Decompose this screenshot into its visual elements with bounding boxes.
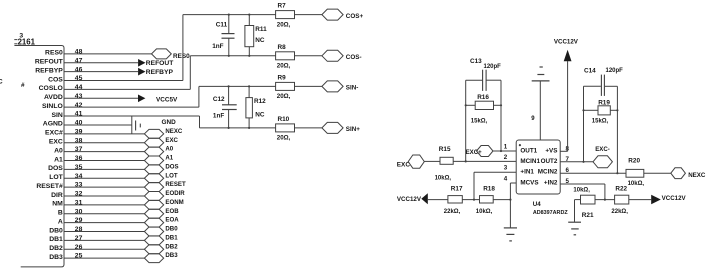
svg-text:COS-: COS- <box>346 54 362 61</box>
svg-text:40: 40 <box>75 120 83 127</box>
svg-text:31: 31 <box>75 199 83 206</box>
svg-text:NC: NC <box>255 111 265 118</box>
svg-text:RESET: RESET <box>165 181 186 188</box>
svg-text:NM: NM <box>52 201 63 208</box>
svg-text:REFBYP: REFBYP <box>146 69 174 76</box>
svg-text:C12: C12 <box>213 96 225 103</box>
svg-text:R22: R22 <box>615 186 627 193</box>
svg-text:35: 35 <box>75 164 83 171</box>
svg-text:28: 28 <box>75 226 83 233</box>
svg-text:VCC5V: VCC5V <box>156 97 178 104</box>
svg-text:10kΩ,: 10kΩ, <box>476 209 493 215</box>
svg-text:R16: R16 <box>477 94 489 101</box>
svg-text:C14: C14 <box>584 67 596 74</box>
svg-text:AD8397ARDZ: AD8397ARDZ <box>533 210 568 216</box>
svg-text:33: 33 <box>75 182 83 189</box>
svg-text:A1: A1 <box>54 156 63 163</box>
svg-text:B: B <box>58 210 63 217</box>
svg-text:OUT1: OUT1 <box>520 148 537 155</box>
svg-text:20Ω,: 20Ω, <box>277 135 291 142</box>
svg-text:15kΩ,: 15kΩ, <box>471 119 488 125</box>
svg-text:REFOUT: REFOUT <box>35 59 64 66</box>
svg-text:43: 43 <box>75 93 83 100</box>
svg-text:RES0: RES0 <box>45 50 63 57</box>
svg-text:U4: U4 <box>533 201 541 208</box>
svg-text:15kΩ,: 15kΩ, <box>592 118 609 124</box>
svg-text:NEXC: NEXC <box>688 172 706 179</box>
svg-text:36: 36 <box>75 155 83 162</box>
svg-text:DB1: DB1 <box>49 236 63 243</box>
svg-text:DB2: DB2 <box>49 245 63 252</box>
svg-text:39: 39 <box>75 128 83 135</box>
svg-text:MCIN1: MCIN1 <box>520 158 540 165</box>
svg-text:COSLO: COSLO <box>39 85 63 92</box>
svg-text:DB3: DB3 <box>49 254 63 261</box>
svg-text:R11: R11 <box>255 26 267 33</box>
svg-text:10kΩ,: 10kΩ, <box>573 188 590 194</box>
svg-text:AGND: AGND <box>43 121 63 128</box>
svg-text:R10: R10 <box>278 116 290 123</box>
svg-text:EOB: EOB <box>165 208 179 215</box>
svg-text:DB3: DB3 <box>165 252 178 259</box>
svg-text:SIN+: SIN+ <box>346 126 360 133</box>
svg-text:R7: R7 <box>278 3 287 10</box>
svg-text:1nF: 1nF <box>213 112 224 119</box>
svg-text:A0: A0 <box>165 146 173 153</box>
svg-text:120pF: 120pF <box>606 68 624 74</box>
svg-text:22kΩ,: 22kΩ, <box>611 209 628 215</box>
svg-text:EXC: EXC <box>397 162 411 169</box>
svg-text:DOS: DOS <box>165 163 178 170</box>
svg-text:2161: 2161 <box>18 38 36 47</box>
svg-text:29: 29 <box>75 217 83 224</box>
svg-text:44: 44 <box>75 84 83 91</box>
svg-text:MCVS: MCVS <box>520 180 538 187</box>
svg-text:+IN1: +IN1 <box>520 169 534 176</box>
svg-text:R12: R12 <box>254 98 266 105</box>
svg-text:EXC: EXC <box>49 139 63 146</box>
svg-text:A0: A0 <box>54 147 63 154</box>
svg-text:NEXC: NEXC <box>165 128 183 135</box>
svg-text:+VS: +VS <box>545 148 557 155</box>
svg-text:A1: A1 <box>165 155 173 162</box>
svg-text:20Ω,: 20Ω, <box>277 93 291 100</box>
svg-text:EOA: EOA <box>165 217 179 224</box>
svg-text:REFOUT: REFOUT <box>146 60 174 67</box>
svg-text:42: 42 <box>75 102 83 109</box>
svg-text:SINLO: SINLO <box>42 103 63 110</box>
svg-text:EXC: EXC <box>165 137 178 144</box>
svg-text:VCC12V: VCC12V <box>397 196 422 203</box>
svg-text:VCC12V: VCC12V <box>662 195 687 202</box>
svg-text:#: # <box>21 82 25 89</box>
svg-text:C: C <box>0 79 3 86</box>
svg-text:EXC-: EXC- <box>595 146 610 153</box>
svg-text:R8: R8 <box>278 44 287 51</box>
svg-text:MCIN2: MCIN2 <box>538 169 558 176</box>
svg-text:LOT: LOT <box>165 172 177 179</box>
svg-text:4: 4 <box>504 175 508 182</box>
svg-text:GND: GND <box>162 119 177 126</box>
svg-text:2: 2 <box>504 154 508 161</box>
svg-text:AVDD: AVDD <box>44 94 63 101</box>
svg-text:DB2: DB2 <box>165 243 178 250</box>
svg-text:37: 37 <box>75 146 83 153</box>
svg-text:RES0: RES0 <box>173 53 190 60</box>
svg-text:120pF: 120pF <box>484 64 502 70</box>
svg-text:26: 26 <box>75 244 83 251</box>
svg-text:25: 25 <box>75 253 83 260</box>
svg-text:20Ω,: 20Ω, <box>277 21 291 28</box>
svg-text:COS: COS <box>48 76 63 83</box>
svg-text:1: 1 <box>504 143 508 150</box>
svg-text:3: 3 <box>504 165 508 172</box>
svg-text:EODIR: EODIR <box>165 190 185 197</box>
svg-text:34: 34 <box>75 173 83 180</box>
svg-text:+IN2: +IN2 <box>544 180 558 187</box>
svg-text:DIR: DIR <box>51 192 63 199</box>
svg-text:R17: R17 <box>451 186 463 193</box>
svg-text:SIN-: SIN- <box>346 85 359 92</box>
svg-text:22kΩ,: 22kΩ, <box>444 209 461 215</box>
svg-text:32: 32 <box>75 191 83 198</box>
svg-text:R21: R21 <box>582 212 594 219</box>
svg-text:10kΩ,: 10kΩ, <box>628 181 645 187</box>
svg-text:1nF: 1nF <box>212 43 223 50</box>
svg-text:DOS: DOS <box>48 165 63 172</box>
svg-text:R9: R9 <box>278 74 287 81</box>
svg-text:48: 48 <box>75 49 83 56</box>
svg-text:RESET#: RESET# <box>36 183 63 190</box>
svg-text:45: 45 <box>75 75 83 82</box>
svg-text:DB0: DB0 <box>49 227 63 234</box>
svg-text:R15: R15 <box>439 146 451 153</box>
svg-text:COS+: COS+ <box>346 13 364 20</box>
svg-text:SIN: SIN <box>51 112 62 119</box>
svg-text:47: 47 <box>75 57 83 64</box>
svg-text:LOT: LOT <box>49 174 63 181</box>
svg-text:30: 30 <box>75 208 83 215</box>
svg-text:46: 46 <box>75 66 83 73</box>
svg-text:R20: R20 <box>628 157 640 164</box>
svg-text:NC: NC <box>255 37 265 44</box>
svg-text:27: 27 <box>75 235 83 242</box>
svg-text:20Ω,: 20Ω, <box>277 63 291 70</box>
svg-text:EXC#: EXC# <box>45 130 63 137</box>
svg-text:A: A <box>58 218 63 225</box>
svg-text:10kΩ,: 10kΩ, <box>435 176 452 182</box>
svg-text:R18: R18 <box>483 186 495 193</box>
svg-text:DB0: DB0 <box>165 226 178 233</box>
svg-text:R19: R19 <box>598 100 610 107</box>
svg-text:C13: C13 <box>470 58 482 65</box>
svg-text:REFBYP: REFBYP <box>35 67 63 74</box>
svg-text:OUT2: OUT2 <box>541 158 558 165</box>
svg-text:41: 41 <box>75 111 83 118</box>
svg-text:C11: C11 <box>216 22 228 29</box>
svg-text:EONM: EONM <box>165 199 183 206</box>
svg-text:38: 38 <box>75 137 83 144</box>
svg-text:VCC12V: VCC12V <box>554 39 579 46</box>
svg-text:DB1: DB1 <box>165 234 178 241</box>
